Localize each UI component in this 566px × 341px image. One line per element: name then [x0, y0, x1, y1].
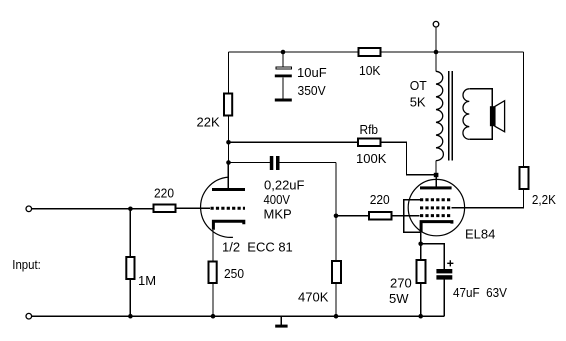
svg-text:400V: 400V — [264, 192, 291, 207]
node grid junction — [334, 214, 339, 219]
tube U2 EL84 envelope — [408, 179, 464, 235]
node 1M bottom junction — [128, 314, 133, 319]
svg-text:Rfb: Rfb — [360, 122, 379, 137]
ground 10uF bar — [275, 99, 292, 102]
svg-text:220: 220 — [370, 192, 390, 207]
tube U2 EL84 plate bar — [420, 186, 452, 189]
capacitor C 10uF positive plate — [276, 67, 292, 69]
svg-text:0,22uF: 0,22uF — [264, 177, 305, 192]
wire input top — [32, 208, 153, 210]
wire feedback left segment — [229, 141, 359, 143]
node cathode junction — [418, 242, 423, 247]
wire 47uF bottom lead — [443, 280, 445, 317]
wire OT primary top lead — [435, 52, 437, 71]
wire top supply rail — [229, 51, 524, 53]
node B+ junction — [434, 50, 439, 55]
wire 270 top lead — [420, 244, 422, 260]
node coupling junction — [226, 160, 231, 165]
resistor R220b — [369, 212, 392, 220]
node plate junction square — [434, 173, 439, 177]
svg-text:270: 270 — [390, 276, 412, 291]
svg-text:10K: 10K — [359, 63, 381, 78]
resistor R470K — [332, 261, 341, 283]
node 470K bottom junction — [334, 314, 339, 319]
wire EL84 cathode lead — [420, 232, 422, 244]
capacitor C 0.22uF plate right — [276, 156, 280, 170]
wire B+ lead — [435, 27, 437, 52]
wire 1M bottom lead — [129, 280, 131, 316]
node 1M top junction — [128, 207, 133, 212]
tube U1 ECC81 cathode — [213, 221, 243, 230]
wire bottom rail — [32, 315, 445, 317]
svg-text:2,2K: 2,2K — [532, 192, 556, 207]
wire grid to 220b — [336, 215, 369, 217]
wire 270 bottom lead — [420, 284, 422, 316]
wire coupling cap right — [280, 162, 337, 164]
svg-text:MKP: MKP — [264, 207, 292, 222]
wire secondary top lead — [469, 89, 492, 107]
svg-text:47uF 63V: 47uF 63V — [453, 285, 507, 300]
wire 1M top lead — [129, 209, 131, 257]
svg-text:350V: 350V — [298, 83, 326, 98]
wire secondary bottom lead — [469, 126, 492, 139]
wire 22K bottom to plate node — [228, 117, 230, 163]
resistor R250 — [209, 262, 217, 284]
resistor R2.2K — [520, 167, 529, 189]
node 270 bottom junction — [418, 314, 423, 319]
node feedback junction — [226, 140, 231, 145]
svg-text:Input:: Input: — [12, 257, 41, 272]
tube U1 ECC81 plate bar — [212, 188, 245, 191]
ground bar — [275, 325, 287, 328]
resistor R220a — [154, 205, 176, 213]
transformer OT secondary winding — [463, 89, 469, 140]
tube U1 ECC81 envelope arc — [201, 177, 233, 237]
resistor R1M — [126, 257, 134, 279]
svg-text:220: 220 — [154, 186, 174, 201]
svg-text:OT: OT — [410, 78, 427, 93]
resistor Rfb — [358, 139, 381, 147]
tube U2 EL84 grid g1 (dashed) — [420, 214, 452, 217]
resistor R10K — [359, 48, 381, 56]
node 10uF junction — [281, 50, 286, 55]
wire 10uF bottom lead — [282, 77, 284, 98]
svg-text:100K: 100K — [356, 151, 387, 166]
capacitor C 10uF negative plate — [275, 75, 292, 78]
svg-text:EL84: EL84 — [465, 227, 495, 242]
tube U2 EL84 cathode — [421, 222, 452, 232]
terminal B+ — [433, 21, 439, 27]
wire grid node vertical — [335, 163, 337, 317]
node 250 bottom junction — [211, 314, 216, 319]
tube U2 EL84 grid g2 (dashed) — [420, 206, 452, 209]
svg-text:10uF: 10uF — [297, 65, 327, 80]
terminal input bottom — [26, 313, 32, 319]
capacitor C 0.22uF plate left — [270, 156, 274, 170]
wire right branch down to 2.2K — [523, 52, 525, 167]
wire coupling cap left — [229, 162, 270, 164]
svg-text:1M: 1M — [138, 273, 156, 288]
capacitor C 47uF plate top — [436, 269, 452, 273]
tube U1 ECC81 grid (dashed) — [211, 207, 246, 210]
speaker cone — [495, 101, 505, 132]
terminal input top — [26, 206, 32, 212]
capacitor C 47uF plate bottom — [436, 275, 452, 279]
wire 10uF top lead — [282, 52, 284, 66]
svg-text:5K: 5K — [410, 95, 426, 110]
wire 220b to EL84 grid — [393, 215, 420, 217]
wire cathode to 47uF — [421, 244, 445, 269]
svg-text:22K: 22K — [197, 115, 220, 130]
tube U2 EL84 grid g3 (dashed) — [420, 198, 452, 201]
wire 22K branch — [228, 52, 230, 93]
wire OT primary bottom lead — [435, 161, 437, 173]
wire ECC81 cathode lead — [212, 230, 214, 262]
svg-text:1/2 ECC 81: 1/2 ECC 81 — [222, 240, 293, 255]
wire 250 bottom lead — [212, 284, 214, 316]
transformer OT core line left — [448, 71, 450, 161]
resistor R22K — [224, 94, 232, 116]
svg-text:5W: 5W — [389, 291, 409, 306]
capacitor C 47uF plus sign — [447, 260, 453, 266]
ground symbol — [280, 316, 282, 325]
wire EL84 plate lead — [435, 177, 437, 186]
wire feedback right segment — [382, 142, 435, 175]
svg-text:470K: 470K — [298, 289, 329, 304]
svg-text:250: 250 — [224, 266, 244, 281]
wire 2.2K to EL84 screen — [452, 189, 524, 208]
wire ECC81 plate lead — [227, 163, 229, 189]
wire 220a to ECC81 grid — [177, 207, 211, 209]
transformer OT core line right — [451, 71, 453, 161]
wire g3 to cathode bracket — [404, 200, 421, 233]
speaker driver box — [490, 106, 495, 126]
transformer OT primary winding — [436, 71, 443, 160]
resistor R270 — [417, 260, 426, 283]
